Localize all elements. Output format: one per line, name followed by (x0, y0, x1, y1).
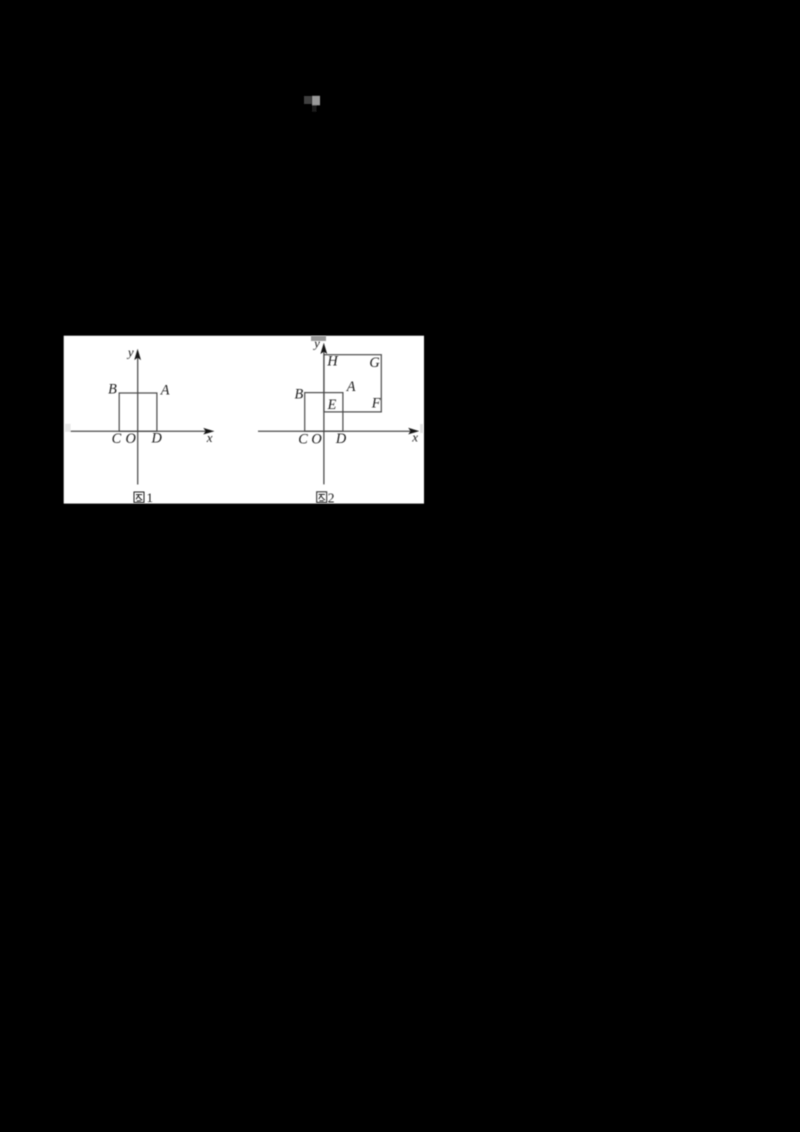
faint scan mark left edge of panel (65, 424, 71, 432)
svg-text:x: x (206, 430, 213, 445)
fig1 y-axis line (137, 355, 139, 485)
fig1 y-axis arrowhead (134, 349, 141, 360)
svg-text:x: x (411, 430, 418, 445)
svg-text:D: D (335, 431, 347, 447)
white figure panel (64, 336, 424, 504)
top smudge light block (312, 96, 320, 106)
fig1 x-axis arrowhead (203, 428, 214, 435)
fig2 rectangle ABDC (305, 393, 343, 432)
svg-text:G: G (369, 355, 380, 371)
fig2 square EFGH (324, 355, 381, 412)
svg-text:H: H (326, 354, 338, 370)
svg-text:A: A (160, 383, 170, 399)
fig1 rectangle ABDC (119, 393, 157, 431)
svg-text:y: y (126, 344, 134, 359)
svg-text:C: C (298, 431, 308, 447)
svg-text:B: B (108, 382, 117, 398)
svg-text:F: F (371, 395, 381, 411)
svg-text:A: A (346, 379, 356, 395)
svg-text:O: O (311, 431, 321, 447)
svg-text:1: 1 (147, 490, 154, 505)
faint scan mark right edge of panel (420, 424, 423, 433)
svg-text:E: E (327, 397, 337, 413)
fig2 y-axis arrowhead (320, 343, 327, 354)
fig1 caption glyph 图 (134, 492, 144, 502)
top smudge dark block (304, 96, 320, 112)
fig2 x-axis line (258, 430, 414, 432)
fig2 caption glyph 图 (317, 492, 327, 503)
svg-text:D: D (151, 431, 163, 447)
fig2 x-axis arrowhead (408, 428, 419, 435)
top smudge faint lower block (312, 105, 317, 112)
svg-text:O: O (126, 431, 136, 447)
svg-text:B: B (294, 386, 303, 402)
svg-text:y: y (312, 336, 320, 351)
svg-text:2: 2 (328, 490, 335, 505)
fig2 y-axis line (323, 349, 325, 484)
fig1 x-axis line (71, 430, 209, 432)
svg-text:C: C (112, 431, 122, 447)
gray smudge above fig2 y-axis arrow (311, 336, 326, 341)
